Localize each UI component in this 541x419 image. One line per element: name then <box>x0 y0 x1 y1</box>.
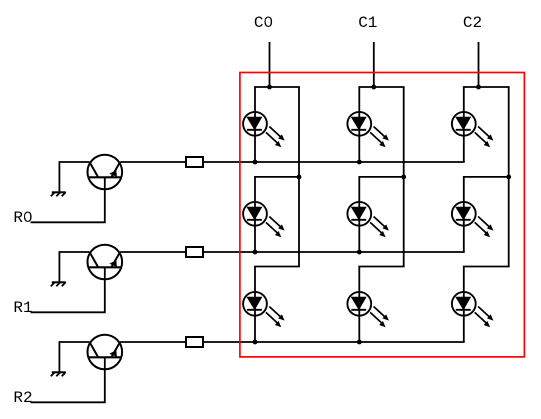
wire: column 0 left branch row 1 <box>254 87 256 162</box>
ground (row 1) <box>51 282 66 286</box>
wire: column 0 right branch to row 2 <box>298 87 300 177</box>
junction: C2 top tee <box>476 85 481 90</box>
wire: column 1 left branch row 3 <box>358 267 360 343</box>
LED D6 (row 1, col 2) <box>452 202 494 237</box>
junction: column 1 row 2 tee <box>401 175 406 180</box>
junction: column 0 row 2 tee <box>297 175 302 180</box>
junction: column 1 LED row 1 cathode <box>357 160 362 165</box>
LED D1 (row 0, col 0) <box>243 112 285 147</box>
wire: column 2 left branch row 2 <box>463 177 465 252</box>
wire: column 1 right branch to row 3 <box>403 177 405 267</box>
svg-text:C0: C0 <box>254 14 273 32</box>
junction: column 0 LED row 1 cathode <box>253 160 258 165</box>
wire: column C0 feed <box>269 42 271 87</box>
svg-text:R2: R2 <box>13 389 32 407</box>
wire: ground stem row 1 <box>58 252 60 282</box>
svg-text:R0: R0 <box>13 209 32 227</box>
wire: Q1 base lead vertical <box>104 177 106 222</box>
wire: Q3 base lead vertical <box>104 357 106 402</box>
net label R0 <box>13 209 32 227</box>
wire: column 1 right branch to row 2 <box>403 87 405 177</box>
junction: column 1 LED row 3 cathode <box>357 340 362 345</box>
wire: row 2 cathode rail <box>203 341 465 343</box>
LED D5 (row 1, col 1) <box>347 202 389 237</box>
junction: column 0 LED row 2 cathode <box>253 250 258 255</box>
wire: Q2 left lead to ground <box>59 251 90 253</box>
junction: C1 top tee <box>371 85 376 90</box>
transistor Q3 (PNP row driver) <box>88 335 123 370</box>
wire: column 1 row 3 bar <box>358 266 404 268</box>
junction: column 2 row 2 tee <box>506 175 511 180</box>
wire: column 0 row 3 bar <box>254 266 300 268</box>
wire: row 0 cathode rail <box>203 161 465 163</box>
LED D4 (row 1, col 0) <box>243 202 285 237</box>
wire: ground stem row 0 <box>58 162 60 192</box>
LED D2 (row 0, col 1) <box>347 112 389 147</box>
wire: Q2 base lead vertical <box>104 267 106 312</box>
junction: C0 top tee <box>267 85 272 90</box>
wire: column 2 row 2 bar <box>463 176 509 178</box>
wire: column 2 row 3 bar <box>463 266 510 268</box>
resistor (row 0 current limit) <box>186 157 203 167</box>
matrix outline (red) <box>240 73 525 357</box>
wire: column 2 right branch to row 3 <box>508 177 510 267</box>
wire: column C2 feed <box>478 42 480 87</box>
LED D9 (row 2, col 2) <box>452 292 494 327</box>
wire: Q1 left lead to ground <box>59 161 90 163</box>
wire: row 1 cathode rail <box>203 251 465 253</box>
ground (row 0) <box>51 192 66 196</box>
wire: R0 base lead horizontal <box>31 221 106 223</box>
svg-text:C1: C1 <box>358 14 377 32</box>
wire: column 0 left branch row 3 <box>254 267 256 343</box>
wire: Q1 right lead to resistor <box>120 161 186 163</box>
wire: column 1 top bar <box>358 86 404 88</box>
resistor (row 2 current limit) <box>186 337 203 347</box>
net label C0 <box>254 14 273 32</box>
wire: column 2 left branch row 1 <box>463 87 465 162</box>
LED D7 (row 2, col 0) <box>243 292 285 327</box>
wire: ground stem row 2 <box>58 342 60 372</box>
svg-text:C2: C2 <box>463 14 482 32</box>
transistor Q1 (PNP row driver) <box>88 155 123 190</box>
svg-text:R1: R1 <box>13 299 32 317</box>
wire: R1 base lead horizontal <box>31 311 106 313</box>
wire: R2 base lead horizontal <box>31 401 106 403</box>
resistor (row 1 current limit) <box>186 247 203 257</box>
wire: Q3 right lead to resistor <box>120 341 186 343</box>
wire: column 0 row 2 bar <box>254 176 299 178</box>
wire: column 0 right branch to row 3 <box>298 177 300 267</box>
LED D3 (row 0, col 2) <box>452 112 494 147</box>
ground (row 2) <box>51 372 66 376</box>
wire: column 2 left branch row 3 <box>463 267 465 343</box>
wire: column 1 left branch row 2 <box>358 177 360 252</box>
wire: column 1 row 2 bar <box>358 176 403 178</box>
wire: Q3 left lead to ground <box>59 341 90 343</box>
wire: column 1 left branch row 1 <box>358 87 360 162</box>
wire: column 2 top bar <box>463 86 510 88</box>
wire: column 2 right branch to row 2 <box>508 87 510 177</box>
transistor Q2 (PNP row driver) <box>88 245 123 280</box>
junction: column 0 LED row 3 cathode <box>253 340 258 345</box>
LED D8 (row 2, col 1) <box>347 292 389 327</box>
wire: column 0 left branch row 2 <box>254 177 256 252</box>
wire: Q2 right lead to resistor <box>120 251 186 253</box>
wire: column C1 feed <box>373 42 375 87</box>
wire: column 0 top bar <box>254 86 300 88</box>
junction: column 1 LED row 2 cathode <box>357 250 362 255</box>
